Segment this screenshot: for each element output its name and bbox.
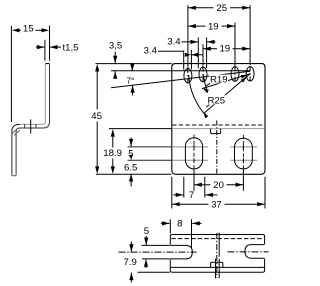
svg-text:3.4: 3.4 bbox=[144, 45, 158, 56]
bracket outer left bend + leg left (black) bbox=[12, 124, 20, 174]
dim 37 bbox=[172, 203, 209, 205]
dim 5 (front) bbox=[130, 138, 132, 147]
dim 20 bbox=[194, 184, 211, 186]
line1: top edge extension bbox=[96, 63, 172, 65]
small slot 1 bbox=[184, 69, 192, 83]
arrowhead of R19 radius line at pivot bbox=[241, 75, 248, 79]
small slot 3 bbox=[231, 67, 239, 81]
tab (bottom view) bbox=[211, 262, 223, 267]
leg bottom closure bbox=[12, 175, 16, 176]
18.9 fold extension line bbox=[109, 128, 172, 130]
mounting position line lower at slot B bbox=[230, 159, 257, 161]
svg-text:25: 25 bbox=[216, 3, 227, 14]
bottom view outline bbox=[170, 235, 264, 245]
svg-text:6.5: 6.5 bbox=[124, 163, 137, 174]
R25 radius line to pivot bbox=[205, 74, 251, 113]
svg-text:3.4: 3.4 bbox=[167, 37, 181, 48]
svg-text:37: 37 bbox=[211, 199, 222, 210]
bend slash 2 bbox=[14, 130, 19, 135]
fold line (dashed) bbox=[172, 124, 264, 126]
bracket outer profile right/bottom (black) bbox=[16, 64, 49, 175]
leader of 3.4 slot1 bbox=[158, 50, 183, 52]
dim 15 bbox=[14, 29, 21, 31]
tab at fold line bbox=[211, 129, 221, 134]
bend slash 1 bbox=[12, 128, 18, 134]
mounting position line lower bbox=[128, 159, 172, 161]
plate top closure bbox=[45, 63, 49, 65]
dim 19 (lower) bbox=[203, 48, 217, 50]
slot2 left edge ext bbox=[197, 38, 199, 69]
mounting position line upper at slot B bbox=[230, 146, 257, 148]
small slot 2 bbox=[199, 67, 207, 81]
svg-text:7°: 7° bbox=[126, 75, 134, 85]
bottom extension line bbox=[96, 173, 172, 175]
dim 8 bbox=[161, 222, 170, 224]
dim t1,5 bbox=[44, 40, 46, 61]
dim 7 bbox=[173, 194, 183, 196]
svg-text:5: 5 bbox=[144, 226, 149, 237]
flange tick 2 (long) bbox=[30, 119, 32, 133]
R19 arc (swing path of slot 2 about pivot) bbox=[203, 75, 207, 93]
dim 5 (bottom view) extension lines bbox=[142, 244, 170, 246]
dim 19 (upper) bbox=[188, 25, 206, 27]
side view of L-bracket bbox=[12, 64, 50, 176]
bracket inner line upper plate + flange top (gray) bbox=[20, 64, 45, 125]
svg-text:R19: R19 bbox=[210, 74, 228, 85]
left notch centerline (dash-dot) bbox=[119, 251, 197, 253]
slot1 width arrowheads bbox=[185, 53, 191, 57]
big slot A bbox=[185, 138, 202, 169]
front view plate outline bbox=[172, 64, 265, 175]
right notch centerline (dash-dot) bbox=[228, 251, 269, 253]
slot1 right edge ext bbox=[190, 50, 192, 70]
tab edge projection line bbox=[218, 233, 220, 257]
hidden edge (dashed) bbox=[171, 238, 263, 240]
R19 radius line to pivot bbox=[202, 74, 250, 89]
svg-text:7.9: 7.9 bbox=[124, 257, 137, 268]
svg-text:R25: R25 bbox=[207, 95, 225, 106]
angle 7deg arrows bbox=[131, 63, 133, 71]
center line of tab (front view) bbox=[216, 121, 218, 175]
R25 arc (swing path of slot 1 about pivot) bbox=[189, 75, 206, 116]
svg-text:15: 15 bbox=[23, 23, 34, 34]
slot extension lines (top) bbox=[187, 5, 189, 68]
label R25 with leader bbox=[207, 95, 227, 104]
dim 25 bbox=[188, 7, 214, 9]
line D1: 7 deg tilted ray bbox=[111, 71, 250, 88]
dim 7.9 bbox=[130, 242, 132, 252]
svg-text:t1,5: t1,5 bbox=[63, 42, 79, 53]
svg-text:20: 20 bbox=[213, 180, 224, 191]
svg-text:7: 7 bbox=[189, 190, 194, 201]
mounting position line upper (5 dim) bbox=[128, 146, 172, 148]
svg-text:3,5: 3,5 bbox=[109, 40, 122, 51]
slot2 right edge ext bbox=[206, 38, 208, 69]
left notch bbox=[170, 245, 192, 259]
svg-text:45: 45 bbox=[91, 111, 102, 122]
svg-text:19: 19 bbox=[208, 21, 219, 32]
tab edge line 2 bbox=[218, 259, 220, 279]
svg-text:18.9: 18.9 bbox=[103, 148, 122, 159]
slot1 left edge ext bbox=[183, 50, 185, 69]
dim 45 bbox=[96, 67, 98, 110]
arrowhead of R25 radius line at pivot bbox=[241, 77, 247, 82]
flange tick 1 bbox=[24, 124, 26, 128]
dim 18.9 bbox=[112, 132, 114, 148]
label R19 with leader bbox=[210, 75, 229, 84]
bottom extension line bbox=[137, 271, 169, 273]
line L2: horizontal ray from pivot slot bbox=[111, 70, 250, 72]
svg-text:8: 8 bbox=[177, 219, 182, 230]
front lip edge line bbox=[171, 266, 264, 268]
dim 15 extension lines bbox=[10, 26, 12, 122]
flange tick 3 bbox=[35, 124, 37, 128]
extension lines below front view bbox=[193, 170, 195, 191]
fold tangent line (gray) bbox=[172, 128, 264, 130]
dim 8 extension lines bbox=[169, 219, 171, 233]
right notch bbox=[245, 245, 265, 259]
tab edge line 1 bbox=[215, 259, 217, 279]
small slot 4 (pivot) bbox=[246, 67, 254, 81]
big slot B bbox=[235, 138, 253, 169]
svg-text:19: 19 bbox=[219, 44, 230, 55]
bottom view vertical centerline bbox=[216, 233, 218, 278]
